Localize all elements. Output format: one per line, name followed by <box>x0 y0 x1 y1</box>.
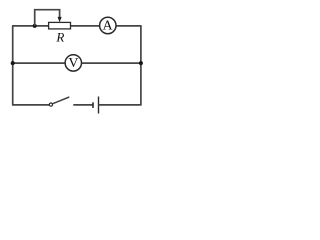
wire: right vertical <box>140 26 142 105</box>
wire: top rail left segment <box>12 25 49 27</box>
wire: left vertical <box>12 26 14 105</box>
battery negative plate (short) <box>92 102 94 108</box>
voltmeter V1 circle <box>65 55 81 71</box>
wire: top rail between resistor and ammeter <box>71 25 100 27</box>
wire: bottom rail right segment <box>99 104 142 106</box>
svg-text:A: A <box>103 18 114 33</box>
resistor R body <box>49 22 71 29</box>
wire: top rail right segment <box>116 25 142 27</box>
node: junction dot top-left <box>33 24 37 28</box>
wire: rheostat slider bypass <box>35 10 60 26</box>
battery positive plate (long) <box>98 97 100 114</box>
wire: middle rail right segment <box>81 62 141 64</box>
wire: bottom rail left segment <box>12 104 49 106</box>
switch S lever <box>52 97 69 104</box>
svg-text:R: R <box>55 29 64 44</box>
node: dot left middle <box>11 61 15 65</box>
rheostat arrowhead <box>58 17 62 22</box>
wire: bottom rail middle segment <box>73 104 93 106</box>
svg-text:V: V <box>68 56 78 71</box>
node: dot right middle <box>139 61 143 65</box>
wire: middle rail left segment <box>12 62 65 64</box>
switch S pivot <box>49 103 52 106</box>
ammeter A1 circle <box>100 17 116 33</box>
